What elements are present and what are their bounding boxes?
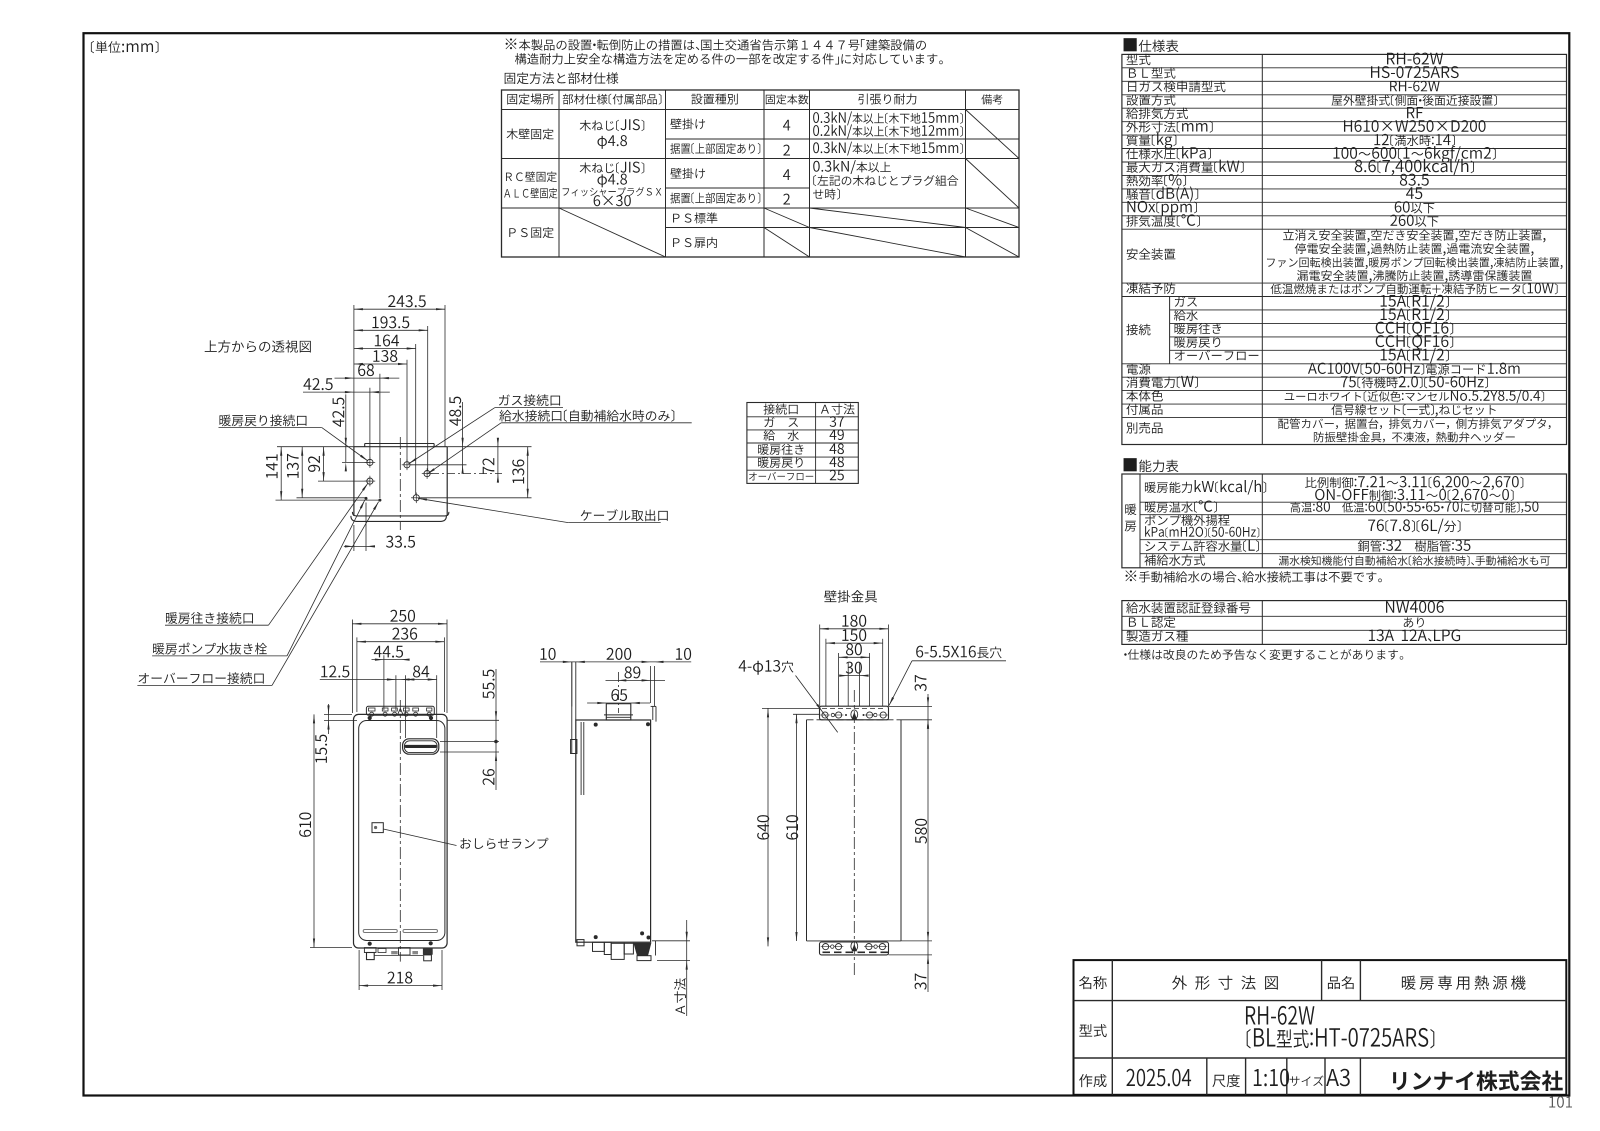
power rows <box>1122 363 1567 365</box>
port pump drain F <box>365 497 368 500</box>
port overflow G <box>378 499 381 502</box>
side A-dim <box>652 940 690 942</box>
top view body outline <box>354 446 447 448</box>
label lamp <box>460 838 548 849</box>
title block row1 texts <box>1079 976 1107 989</box>
bracket dim 180 <box>819 625 821 707</box>
label cable outlet <box>581 509 668 521</box>
front dim 218 <box>358 950 360 990</box>
connection sub divider <box>1169 297 1171 364</box>
side view screws <box>594 723 598 727</box>
top note line2 <box>515 53 943 64</box>
top dim 42.5 vertical <box>345 394 347 462</box>
front view bottom screws <box>368 942 372 946</box>
side view wall plate <box>571 662 573 754</box>
bracket view title <box>824 590 877 602</box>
port heating-out D <box>367 478 373 484</box>
top dim 136 <box>527 447 529 498</box>
bracket center line <box>853 690 855 978</box>
bracket bottom slots dashed <box>823 951 831 953</box>
port heating-return A <box>367 459 373 465</box>
side view front hook <box>652 706 654 720</box>
front view bracket strip with slots <box>366 706 434 715</box>
title block border <box>1074 960 1567 1095</box>
side dim 65 <box>587 702 650 704</box>
bracket dim 150 <box>825 639 827 706</box>
front view outer body <box>354 714 448 948</box>
fixing table headers <box>507 93 553 104</box>
port G left extension <box>276 499 380 501</box>
connection rows group <box>1122 296 1567 298</box>
bracket dim 37 top <box>927 694 929 720</box>
bracket dim 37 bottom <box>927 941 929 992</box>
front dim 250 <box>351 620 353 714</box>
bracket dim 640 <box>767 708 769 946</box>
front view bracket lower cutouts <box>370 712 374 716</box>
spec table outer border <box>1122 54 1567 444</box>
side view body <box>576 720 651 942</box>
capacity rows <box>1145 480 1266 495</box>
front view bottom handles <box>363 930 397 933</box>
optional items row (2 lines) <box>1122 417 1567 419</box>
title block row3 texts <box>1079 1074 1106 1087</box>
side view bottom connectors <box>577 940 584 946</box>
bracket unit outline dashed <box>806 720 808 941</box>
bracket dim 30 <box>847 663 849 706</box>
bracket top center hole <box>851 710 858 719</box>
port B right extension <box>411 464 467 466</box>
front view louver <box>403 739 439 754</box>
spec table simple rows <box>1122 67 1567 69</box>
top dim 33.5 <box>353 525 355 551</box>
front view top screws <box>368 716 372 720</box>
top view center line <box>399 437 401 530</box>
top dim 92 <box>323 447 325 481</box>
top view top-edge left extension <box>277 446 354 448</box>
fixing table column lines <box>558 90 560 257</box>
front dim 84 <box>404 675 406 738</box>
top view title <box>205 340 311 352</box>
certification rows <box>1126 602 1250 614</box>
bracket top strip <box>820 706 889 720</box>
label water supply port <box>499 410 674 422</box>
port A left extension <box>342 461 370 463</box>
fixing row: RC/ALC wall <box>506 171 557 182</box>
spec table divider <box>1261 54 1263 444</box>
capacity table lines <box>1139 474 1141 568</box>
freeze prevention row <box>1122 282 1567 284</box>
port E right extension <box>421 497 532 499</box>
front view notification lamp <box>372 823 383 833</box>
top dim 164 <box>415 344 417 495</box>
fixing row: PS <box>509 227 553 238</box>
capacity table title <box>1124 458 1179 472</box>
label 6-5.5X16 slots <box>916 646 1001 659</box>
fixing table row lines <box>502 109 1020 111</box>
top dim 141 <box>280 447 282 500</box>
fixing table diagonal slashes <box>559 208 666 257</box>
fixing row: wood wall <box>507 128 554 139</box>
top dim 193.5 <box>427 326 429 471</box>
top view right top-edge extension <box>447 446 531 448</box>
manual water note <box>1126 570 1382 582</box>
top dim 137 <box>301 447 303 498</box>
side dim 10-200-10 <box>540 661 691 663</box>
port cable outlet E <box>413 495 419 501</box>
fixing table outer border <box>502 90 1020 257</box>
bracket left extensions <box>762 707 820 709</box>
label gas port <box>499 394 560 406</box>
port D left extension <box>318 480 370 482</box>
port water-supply C <box>424 471 430 477</box>
side view flue centerline <box>618 672 620 713</box>
top view bracket strip <box>365 443 434 445</box>
label heating out port <box>166 612 253 624</box>
port gas B <box>404 462 410 468</box>
bracket dim 580 <box>927 720 929 941</box>
port C right extension dashdot <box>431 473 502 475</box>
title block row2 texts <box>1079 1024 1106 1037</box>
front dim 55.5 and 26 <box>448 719 500 721</box>
top dim 243.5 <box>353 305 355 447</box>
port F left extension <box>297 497 367 499</box>
sheet number <box>1549 1096 1572 1108</box>
capacity vertical danbou label <box>1125 504 1136 515</box>
safety devices row (4 lines) <box>1122 228 1567 230</box>
unit note (tanni:mm) <box>91 41 159 53</box>
top dim 48.5 <box>462 402 464 470</box>
top dim 42.5 horizontal <box>369 388 371 460</box>
label 4-phi13 holes <box>739 660 794 675</box>
capacity table outer border <box>1122 474 1567 568</box>
front view center line <box>399 700 401 962</box>
bracket top holes <box>822 712 828 718</box>
front dim 236 <box>356 637 358 712</box>
top dim 72 <box>497 444 499 479</box>
label overflow port <box>139 672 264 684</box>
front dim 44.5 <box>383 655 385 710</box>
front dim 12.5 <box>395 675 397 710</box>
bracket right extensions <box>889 705 933 707</box>
bracket bottom holes <box>823 944 829 950</box>
front view bottom connectors <box>360 947 440 949</box>
title block verticals <box>1111 960 1113 1095</box>
spec table title <box>1124 38 1179 52</box>
side view top flue <box>606 704 631 720</box>
label heating return port <box>219 414 306 426</box>
bracket bottom strip <box>820 942 889 955</box>
certification table border <box>1122 601 1567 645</box>
spec change note <box>1124 649 1403 660</box>
fixing table title <box>505 72 619 84</box>
front view inner panel <box>359 721 445 941</box>
side view hanger rail <box>580 722 582 795</box>
front dim 610 <box>310 947 352 949</box>
top note line1 <box>506 38 926 50</box>
top dim 138 <box>406 360 408 462</box>
label pump drain <box>153 643 267 655</box>
front dim 15.5 <box>324 713 352 715</box>
A-size table <box>747 403 858 484</box>
bracket dim 610 <box>796 714 798 941</box>
top dim 68 <box>379 374 381 498</box>
top view front panel edge <box>351 516 447 522</box>
top view seam line front <box>352 512 449 516</box>
bracket dim 80 <box>838 653 840 706</box>
side dim 89 <box>606 679 666 681</box>
